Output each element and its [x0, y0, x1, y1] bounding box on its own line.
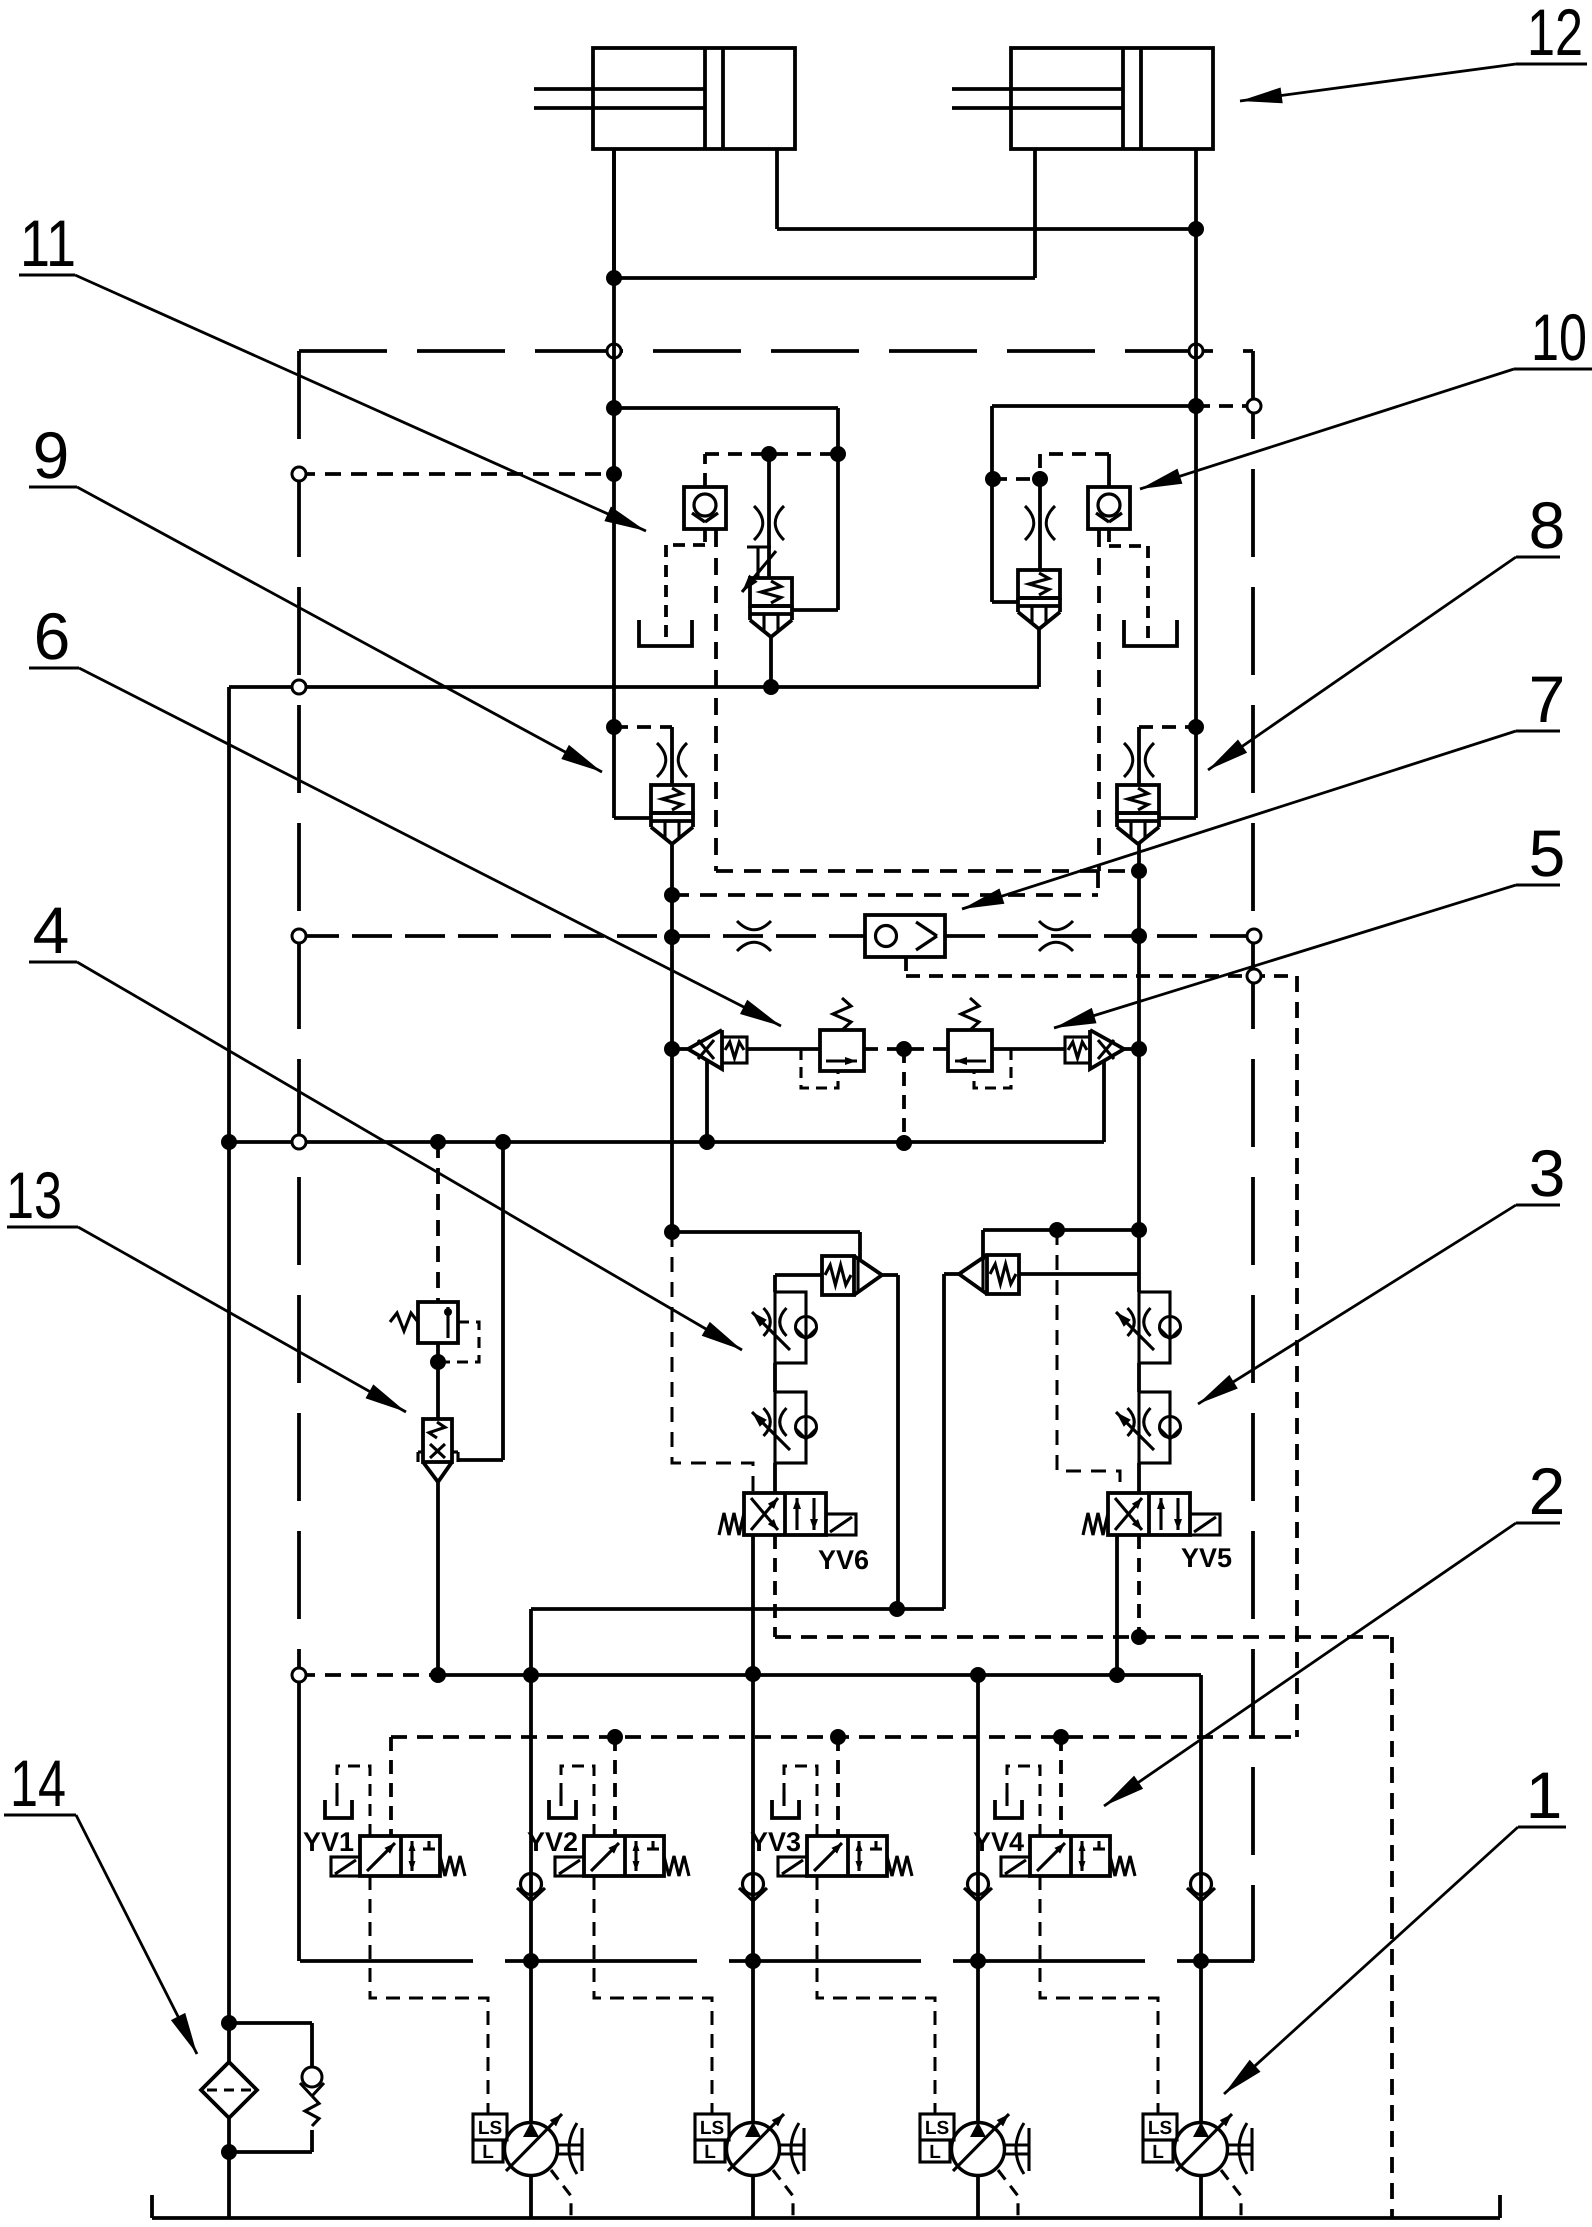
boundary crossing marker (299,474) [292, 467, 306, 481]
svg-text:8: 8 [1529, 488, 1566, 562]
wire: long bus y=1142 [229, 1140, 1104, 1144]
junction (672,895) [664, 887, 680, 903]
wire: between 13a and 13b [436, 1343, 440, 1419]
pilot valve YV4 body [1030, 1836, 1110, 1876]
wire: left chain x=775 [773, 1275, 777, 1292]
pilot dashed: check valve top to y=454 line [703, 454, 707, 487]
junction (753,1961) [745, 1953, 761, 1969]
spring of YV1 [440, 1856, 465, 1876]
wire: left cylinder cap-side port down [775, 149, 779, 229]
pilot line with orifice into relief 8 [1137, 727, 1141, 785]
wire: relief 9 input from left main [614, 816, 651, 820]
pilot drain dashed of YV4 to tank [1007, 1766, 1040, 1836]
svg-text:LS: LS [1148, 2118, 1172, 2139]
pilot dashed x=1099 (inner crossover, right) [1097, 530, 1101, 871]
directional valve YV6 body [744, 1493, 826, 1535]
filter item 14 (diamond) [201, 2062, 257, 2118]
pilot dashed YV1 to pilot bus [389, 1737, 393, 1836]
svg-text:14: 14 [10, 1746, 66, 1820]
svg-text:LS: LS [478, 2118, 502, 2139]
pump 2 regulator symbol [780, 2143, 804, 2146]
pump 4 regulator symbol [1228, 2143, 1252, 2146]
LS pilot dashed of YV2 [594, 1876, 712, 2114]
pilot dashed between valves with center tap [864, 1047, 948, 1051]
check valve on pump 3 riser [968, 1874, 989, 1895]
pilot dashed (1196,406) to boundary [1196, 404, 1248, 408]
svg-text:YV5: YV5 [1181, 1543, 1232, 1573]
pilot dashed jog from 13a to line below [438, 1322, 479, 1362]
hydraulic cylinder 12 (left) [593, 48, 795, 149]
wire: right chain to YV5 [1137, 1463, 1141, 1493]
variable displacement pump 1 [505, 2123, 558, 2176]
pump 1 regulator symbol [558, 2143, 582, 2146]
pilot dashed: check valve 10 top via y=454 [1107, 454, 1111, 487]
wire: pump3 riser [976, 1675, 980, 2122]
pilot drain dashed of YV1 to tank [337, 1766, 370, 1836]
svg-text:4: 4 [33, 893, 70, 967]
spring of YV5 [1083, 1513, 1108, 1535]
LS pilot dashed of YV3 [817, 1876, 935, 2114]
wire: filter output to tank line [227, 2118, 231, 2218]
pilot dashed y=871 crossover to right branch [716, 869, 1139, 873]
pump 2 drain dashed [773, 2170, 793, 2218]
wire: right cartridge right port to main branch [1019, 1272, 1139, 1276]
one-way throttle valve item 3 (lower right) [1139, 1392, 1170, 1463]
svg-text:L: L [704, 2142, 716, 2163]
junction (1117,1675) [1109, 1667, 1125, 1683]
wire: pilot check right top feed [981, 1230, 985, 1260]
wire: bus y=1675 solid part [438, 1673, 1201, 1677]
pilot dashed YV3 to pilot bus [836, 1737, 840, 1836]
wire: right cartridge left port down to y=1609 [944, 1272, 959, 1276]
junction (229,2023) [221, 2015, 237, 2031]
junction (503,1142) [495, 1134, 511, 1150]
wire: pump 4 outlet to tank line [1199, 2175, 1203, 2218]
pilot valve YV3 body [807, 1836, 887, 1876]
wire: left chain to YV6 [773, 1463, 777, 1493]
wire: left cartridge right port down to y=1609 [882, 1273, 898, 1277]
svg-text:13: 13 [6, 1158, 62, 1232]
svg-text:9: 9 [33, 418, 70, 492]
pilot throttle cartridge item 6 (left, points left) [688, 1030, 722, 1069]
junction (672,937) [664, 929, 680, 945]
svg-text:3: 3 [1529, 1136, 1566, 1210]
wire: relief output down to bus y=687 corner [1037, 629, 1041, 687]
junction (438,1142) [430, 1134, 446, 1150]
pilot dashed jog x=1098 [1096, 871, 1100, 895]
directional valve YV5 body [1108, 1493, 1190, 1535]
solenoid of YV5 [1190, 1514, 1220, 1535]
pilot dashed YV6 B-port to dashed bus y=1637 [773, 1535, 777, 1637]
L box of pump 4 [1143, 2140, 1173, 2162]
one-way throttle valve item 4 (upper left) [775, 1292, 806, 1363]
enclosure boundary: left side x=299 [297, 351, 301, 1680]
pilot throttle cartridge (right, points right) [1065, 1037, 1090, 1063]
pilot dashed from shuttle bottom to x=1297 [904, 957, 908, 976]
spring of YV4 [1110, 1856, 1135, 1876]
wire: pump 3 outlet to tank line [976, 2175, 980, 2218]
pump 3 regulator symbol [1005, 2143, 1029, 2146]
wire: relief 9 output down the left branch x=672 [670, 844, 674, 1232]
pump 4 drain dashed [1221, 2170, 1241, 2218]
wire: right cylinder rod-side port down [1033, 149, 1037, 278]
svg-text:10: 10 [1531, 300, 1587, 374]
svg-text:5: 5 [1529, 816, 1566, 890]
wire: YV5 A-port down to bus y=1675 [1115, 1535, 1119, 1675]
pilot box of YV4 [1001, 1857, 1030, 1876]
enclosure boundary: right side x=1253 [1251, 351, 1255, 1905]
wire: left cylinder rod-side port down [612, 149, 616, 278]
junction (838,1737) [830, 1729, 846, 1745]
junction (1139,1049) [1131, 1041, 1147, 1057]
wire: YV6 A-port down to pump2 riser [751, 1535, 755, 2122]
spring of YV3 [887, 1856, 912, 1876]
pressure valve item 13 (cartridge with spring and throttle) [423, 1419, 452, 1462]
pilot long-dash line y=936 right part [945, 934, 1254, 938]
svg-text:L: L [929, 2142, 941, 2163]
junction (531,1675) [523, 1667, 539, 1683]
check valve on pump 4 riser [1191, 1874, 1212, 1895]
check valve on pump 2 riser [743, 1874, 764, 1895]
junction (707,1142) [699, 1134, 715, 1150]
svg-text:11: 11 [20, 206, 76, 280]
variable displacement pump 2 [727, 2123, 780, 2176]
pump 1 drain dashed [551, 2170, 571, 2218]
tank symbol above YV2 [559, 1791, 562, 1806]
pilot dashed from (672,1232) to YV6 [672, 1232, 753, 1493]
pilot relief valve 2 of central assembly (item 5) [948, 1030, 992, 1071]
junction (1139,1230) [1131, 1222, 1147, 1238]
counterbalance relief valve item 11 (variable) [750, 578, 792, 606]
wire: left down-leg x=229 from bus to y=1142 [227, 687, 231, 1142]
pilot dashed (1139,727)-(1196,727) for relief 8 [1139, 725, 1196, 729]
L box of pump 2 [695, 2140, 725, 2162]
pilot-to-open check cartridge (right group) [987, 1255, 1019, 1294]
variable displacement pump 3 [952, 2123, 1005, 2176]
junction (838,454) [830, 446, 846, 462]
LS pilot dashed of YV1 [370, 1876, 488, 2114]
wire between right throttles [1137, 1363, 1141, 1392]
wire: (747,1049)-(820,1049) [747, 1047, 820, 1051]
one-way throttle valve (upper right) [1139, 1292, 1170, 1363]
valve 13a (2/2 plunger) with spring [418, 1302, 458, 1343]
wire: assembly inlet right (1124,1049)-(1139,1049) [1124, 1047, 1139, 1051]
tank line at bottom [152, 2216, 1500, 2220]
wire: assembly right port up from bus corner [1102, 1060, 1106, 1142]
junction (1196,406) [1188, 398, 1204, 414]
svg-text:2: 2 [1529, 1454, 1566, 1528]
L box of pump 1 [473, 2140, 503, 2162]
pump 3 drain dashed [998, 2170, 1018, 2218]
pilot dashed from (1057,1230) to YV5 [1057, 1230, 1120, 1493]
wire: cross line y=278 (right rod to left main) [614, 276, 1035, 280]
boundary crossing marker (1254,936) [1247, 929, 1261, 943]
pilot box of YV3 [778, 1857, 807, 1876]
pilot dashed YV4 to pilot bus [1059, 1737, 1063, 1836]
svg-text:6: 6 [34, 599, 71, 673]
junction (753,1674) [745, 1666, 761, 1682]
pilot dashed x=1392 down to tank line [1390, 1637, 1394, 2218]
pilot dashed x=716 (inner crossover, left) [714, 530, 718, 871]
counterbalance relief valve (right) [1018, 570, 1060, 598]
pilot dashed bus y=1737 (to YV1-YV4) [391, 1735, 1297, 1739]
svg-text:L: L [482, 2142, 494, 2163]
pilot dashed (993,479)-(1040,479) [993, 477, 1040, 481]
junction (615,1737) [607, 1729, 623, 1745]
bypass check valve beside filter [229, 2021, 312, 2025]
wire: pump 2 outlet to tank line [751, 2175, 755, 2218]
wire: relief 8 input from right main [1159, 816, 1196, 820]
boundary crossing marker (299,1142) [292, 1135, 306, 1149]
enclosure boundary: top side y=351 [299, 349, 1253, 353]
wire: left main line x=614 down to relief 9 input [612, 149, 616, 818]
pilot dashed box under valve 1 [801, 1049, 838, 1088]
junction (614,408) [606, 400, 622, 416]
pilot drain dashed of YV3 to tank [784, 1766, 817, 1836]
svg-text:YV4: YV4 [973, 1827, 1024, 1857]
wire: item 13 output down to bus y=1675 [436, 1482, 440, 1675]
pilot dashed x=1297 down to pilot bus [1295, 976, 1299, 1737]
variable displacement pump 4 [1175, 2123, 1228, 2176]
check valve (pilot operated) of right counterbalance, item 10 [1088, 487, 1130, 529]
boundary crossing marker (1254,406) [1247, 399, 1261, 413]
junction (897,1609) [889, 1601, 905, 1617]
pilot valve YV2 body [584, 1836, 664, 1876]
wire: (992,1049)-(1065,1049) [992, 1047, 1065, 1051]
svg-text:LS: LS [925, 2118, 949, 2139]
spring of YV2 [664, 1856, 689, 1876]
LS box of pump 2 [695, 2114, 729, 2140]
wire: assembly left port down to bus [705, 1060, 709, 1142]
pilot relief valve 1 of central assembly [820, 1030, 864, 1071]
relief valve item 8 [1117, 785, 1159, 813]
adjustment arrow of relief 11 [742, 551, 776, 592]
LS pilot dashed of YV4 [1040, 1876, 1158, 2114]
junction (672,1232) [664, 1224, 680, 1240]
svg-text:YV2: YV2 [527, 1827, 578, 1857]
junction (438,1675) [430, 1667, 446, 1683]
relief valve item 9 [651, 785, 693, 813]
junction (978,1675) [970, 1667, 986, 1683]
pilot drain dashed of YV2 to tank [561, 1766, 594, 1836]
svg-text:L: L [1152, 2142, 1164, 2163]
pilot dashed box under valve 2 [974, 1049, 1011, 1088]
svg-text:YV3: YV3 [750, 1827, 801, 1857]
wire: bus y=687 from x=229 to relief output x=1039 [229, 685, 1039, 689]
tank symbol above YV1 [335, 1791, 338, 1806]
pilot-to-open check cartridge (left group) [822, 1256, 854, 1295]
junction at (1196,229) [1188, 221, 1204, 237]
wire between left throttles [773, 1363, 777, 1392]
junction (1040,479) [1032, 471, 1048, 487]
solenoid of YV6 [826, 1514, 856, 1535]
junction (1201,1961) [1193, 1953, 1209, 1969]
boundary crossing marker (299,687) [292, 680, 306, 694]
junction (1057,1230) [1049, 1222, 1065, 1238]
wire: supply bus y=1961 segments with hops [300, 1959, 473, 1963]
boundary crossing marker at (614,351) [607, 344, 621, 358]
hydraulic cylinder 12 (right) [1011, 48, 1213, 149]
junction (904,1049) [896, 1041, 912, 1057]
LS box of pump 3 [920, 2114, 954, 2140]
pilot dashed YV2 to pilot bus [613, 1737, 617, 1836]
tank symbol above YV3 [782, 1791, 785, 1806]
junction (1139,871) [1131, 863, 1147, 879]
wire: left group top link y=1232 [672, 1230, 860, 1234]
LS box of pump 4 [1143, 2114, 1177, 2140]
svg-text:YV1: YV1 [303, 1827, 354, 1857]
wire: cross line y=229 (left cap to right main) [777, 227, 1196, 231]
boundary crossing marker at (1196,351) [1189, 344, 1203, 358]
junction at (614,278) [606, 270, 622, 286]
wire: right main line x=1196 down to relief 8 input [1194, 149, 1198, 818]
spring of YV6 [719, 1513, 744, 1535]
wire: link bus y=1609 [531, 1607, 944, 1611]
L box of pump 3 [920, 2140, 950, 2162]
junction (531,1961) [523, 1953, 539, 1969]
pilot dashed (614,727)-(672,727) for relief 9 [614, 725, 672, 729]
junction (229,2152) [221, 2144, 237, 2160]
junction (1061,1737) [1053, 1729, 1069, 1745]
svg-text:YV6: YV6 [818, 1545, 869, 1575]
junction (672,1049) [664, 1041, 680, 1057]
junction (438,1362) [430, 1354, 446, 1370]
tank symbol (left counterbalance) [639, 620, 692, 646]
pilot dashed y=895 crossover to left branch [672, 893, 1098, 897]
pilot line dashed y=474 from boundary to left main [299, 472, 614, 476]
wire: x=503 from bus down to item 13 output [501, 1142, 505, 1460]
orifice on pilot line (right) [1039, 921, 1073, 930]
pilot long-dash line y=936 left part [299, 934, 865, 938]
junction (614,474) [606, 466, 622, 482]
pilot dashed bus y=1637 [775, 1635, 1392, 1639]
wire: right group top link y=1230 [983, 1228, 1139, 1232]
tank symbol above YV4 [1005, 1791, 1008, 1806]
pilot dashed center tap down [902, 1049, 906, 1143]
junction (771,687) [763, 679, 779, 695]
LS box of pump 1 [473, 2114, 507, 2140]
pilot valve YV1 body [360, 1836, 440, 1876]
junction (1196,727) [1188, 719, 1204, 735]
drain dashed from check 10 to tank [1107, 530, 1111, 546]
orifice on pilot line (left) [737, 921, 771, 930]
wire: left cartridge left port to chain [775, 1273, 822, 1277]
junction (229,1142) [221, 1134, 237, 1150]
wire: top link (614,408)-(838,408) and down x=838 [614, 406, 838, 410]
junction (978,1961) [970, 1953, 986, 1969]
wire: pump 1 outlet to tank line [529, 2175, 533, 2218]
wire: relief 11 output down to bus y=687 [769, 637, 773, 687]
pilot line with orifice into relief 9 [670, 727, 674, 785]
boundary crossing marker (299,1675) [292, 1668, 306, 1682]
svg-text:7: 7 [1529, 662, 1566, 736]
wire: x=229 down to filter [227, 1142, 231, 2062]
wire: pilot check left top feed [858, 1232, 862, 1262]
one-way throttle valve (lower left) [775, 1392, 806, 1463]
pilot dashed part of bus y=1675 [299, 1673, 438, 1677]
svg-text:12: 12 [1527, 0, 1583, 69]
wire: assembly inlet left (672,1049) [672, 1047, 688, 1051]
pilot line with orifice feeding relief of right counterbalance [1038, 479, 1042, 570]
boundary crossing marker (299,936) [292, 929, 306, 943]
wire: top link (992,406)-(1196,406) and down x=992 [992, 404, 1196, 408]
svg-text:1: 1 [1526, 1758, 1563, 1832]
wire: relief 8 output down the right branch x=1139 [1137, 844, 1141, 1230]
svg-text:LS: LS [700, 2118, 724, 2139]
tank symbol (right counterbalance) [1124, 620, 1177, 646]
junction (993,479) [985, 471, 1001, 487]
check valve on pump 1 riser [521, 1874, 542, 1895]
junction (1139,936) [1131, 928, 1147, 944]
drain dashed from check 11 to tank [703, 530, 707, 545]
junction (904,1143) [896, 1135, 912, 1151]
check valve (pilot operated) of left counterbalance, item 11 [684, 487, 726, 529]
boundary crossing marker (1254,976) [1247, 969, 1261, 983]
wire: pump1 riser top segment [529, 1609, 533, 2122]
junction (614,727) [606, 719, 622, 735]
pilot box of YV2 [555, 1857, 584, 1876]
wire: pump4 riser from bus corner [1199, 1675, 1203, 2122]
junction (769,454) [761, 446, 777, 462]
pilot box of YV1 [331, 1857, 360, 1876]
shuttle valve item 7 [865, 915, 945, 957]
pilot line with orifice feeding relief 11 [767, 454, 771, 578]
junction (1139,1637) [1131, 1629, 1147, 1645]
pilot dashed YV5 B-port down [1137, 1535, 1141, 1637]
wire: right chain x=1139 [1137, 1230, 1141, 1292]
pilot dashed x=438 from bus to valve 13a [436, 1142, 440, 1302]
